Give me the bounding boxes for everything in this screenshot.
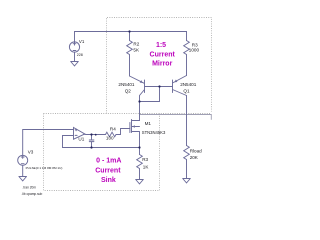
svg-text:100: 100 (106, 135, 114, 140)
svg-text:R3: R3 (142, 157, 148, 162)
svg-text:20K: 20K (190, 155, 199, 160)
svg-text:Rload: Rload (190, 149, 202, 154)
svg-text:5K: 5K (133, 47, 140, 52)
svg-text:STN3N45K3: STN3N45K3 (142, 130, 166, 135)
svg-text:.lib opamp.sub: .lib opamp.sub (22, 192, 43, 196)
svg-text:0 - 1mA: 0 - 1mA (96, 157, 121, 164)
svg-text:2N5401: 2N5401 (180, 82, 197, 87)
svg-text:1000: 1000 (189, 47, 200, 52)
svg-text:R4: R4 (110, 126, 116, 131)
svg-text:Q1: Q1 (183, 89, 190, 94)
svg-text:Mirror: Mirror (152, 61, 173, 68)
svg-text:1K: 1K (143, 164, 150, 169)
svg-text:R2: R2 (133, 41, 139, 46)
svg-text:Q2: Q2 (125, 88, 132, 93)
svg-text:228: 228 (77, 53, 83, 57)
svg-text:Current: Current (150, 52, 176, 59)
svg-text:Sink: Sink (101, 177, 116, 184)
svg-text:.tran 20m: .tran 20m (23, 186, 37, 190)
svg-text:V1: V1 (79, 39, 85, 44)
svg-text:1:5: 1:5 (156, 42, 166, 49)
svg-text:M1: M1 (145, 121, 152, 126)
svg-text:Current: Current (95, 168, 121, 175)
svg-text:2N5401: 2N5401 (118, 82, 135, 87)
svg-text:U1: U1 (78, 137, 84, 142)
svg-text:V3: V3 (28, 150, 34, 155)
svg-text:PULSE(0 1 1M 8M 8M 1U): PULSE(0 1 1M 8M 8M 1U) (26, 166, 63, 170)
